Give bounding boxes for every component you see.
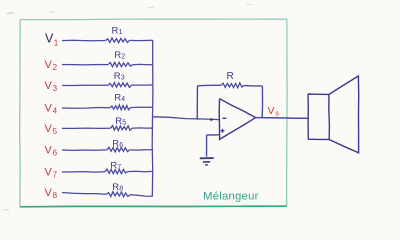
resistor R5 <box>111 126 133 131</box>
resistor R6 <box>107 147 130 152</box>
feedback resistor R <box>221 83 244 88</box>
junction dot inverting node <box>210 118 213 121</box>
resistor R4 <box>110 105 131 110</box>
svg-text:V: V <box>45 123 53 135</box>
svg-text:6: 6 <box>119 142 123 149</box>
pencil smudge top-middle <box>147 6 154 9</box>
op-amp inverting pin minus sign <box>223 117 227 119</box>
svg-text:R: R <box>112 182 119 193</box>
svg-text:3: 3 <box>53 84 58 93</box>
svg-text:R: R <box>110 161 117 172</box>
svg-text:2: 2 <box>53 63 58 72</box>
feedback wire left vertical <box>196 86 198 120</box>
svg-text:V: V <box>45 102 53 114</box>
svg-text:R: R <box>227 71 234 82</box>
wire V8 to R8 <box>62 193 107 195</box>
svg-text:5: 5 <box>122 119 126 126</box>
wire R5 to bus <box>132 127 153 129</box>
wire R1 to bus <box>130 39 153 41</box>
wire R8 to bus <box>130 195 153 197</box>
svg-text:R: R <box>114 50 121 61</box>
wire V7 to R7 <box>62 171 105 174</box>
wire V6 to R6 <box>62 149 107 152</box>
svg-text:8: 8 <box>53 191 58 200</box>
speaker horn <box>329 76 359 153</box>
resistor R1 <box>106 38 130 43</box>
svg-text:V: V <box>45 80 53 92</box>
frame top edge <box>20 18 287 21</box>
svg-text:3: 3 <box>121 74 125 81</box>
svg-text:1: 1 <box>54 38 59 48</box>
wire V5 to R5 <box>62 127 111 129</box>
svg-text:V: V <box>45 59 53 71</box>
ground symbol <box>200 158 214 165</box>
resistor R8 <box>107 192 131 197</box>
svg-text:V: V <box>45 166 53 178</box>
svg-text:7: 7 <box>117 164 121 171</box>
wire V2 to R2 <box>62 64 108 66</box>
resistor R3 <box>108 83 132 88</box>
wire R4 to bus <box>131 106 153 108</box>
pencil smudge top-left <box>7 13 14 14</box>
svg-text:2: 2 <box>121 53 125 60</box>
wire V4 to R4 <box>62 107 110 110</box>
wire non-inverting input to ground <box>207 134 220 136</box>
svg-text:V: V <box>268 105 275 117</box>
feedback wire top left <box>197 84 221 87</box>
op-amp non-inverting pin plus sign <box>221 129 225 133</box>
svg-text:Mélangeur: Mélangeur <box>203 191 259 203</box>
svg-text:R: R <box>114 71 121 82</box>
svg-text:R: R <box>115 116 122 127</box>
resistor R2 <box>108 62 133 67</box>
svg-text:4: 4 <box>53 107 58 116</box>
wire R3 to bus <box>132 84 153 86</box>
wire R6 to bus <box>130 149 153 151</box>
feedback wire right vertical <box>261 86 263 118</box>
frame right edge <box>286 19 289 206</box>
wire R7 to bus <box>128 170 153 173</box>
wire bus to op-amp inverting input <box>153 117 220 120</box>
svg-text:8: 8 <box>119 185 123 192</box>
svg-text:6: 6 <box>53 149 58 158</box>
wire V3 to R3 <box>62 84 108 86</box>
svg-text:V: V <box>45 144 53 156</box>
pencil smudge bottom-left <box>4 209 9 212</box>
svg-text:R: R <box>112 139 119 150</box>
svg-text:1: 1 <box>119 29 123 36</box>
frame left edge <box>19 20 22 207</box>
output wire to speaker <box>256 117 308 120</box>
pencil smudge top <box>50 11 55 14</box>
svg-text:5: 5 <box>53 127 58 136</box>
svg-text:s: s <box>275 109 279 118</box>
svg-text:R: R <box>114 93 121 104</box>
svg-text:V: V <box>45 187 53 199</box>
svg-text:R: R <box>112 26 119 37</box>
pencil smudge top-right <box>246 3 253 6</box>
speaker driver rectangle <box>308 94 329 140</box>
svg-text:4: 4 <box>121 96 125 103</box>
resistor R7 <box>105 169 128 174</box>
wire V1 to R1 <box>62 39 106 41</box>
wire R2 to bus <box>133 63 153 65</box>
feedback wire top right <box>244 85 262 87</box>
frame bottom edge <box>20 205 287 208</box>
svg-text:7: 7 <box>53 171 58 180</box>
op-amp U1 triangle <box>219 99 255 140</box>
summing bus vertical wire <box>151 40 154 196</box>
